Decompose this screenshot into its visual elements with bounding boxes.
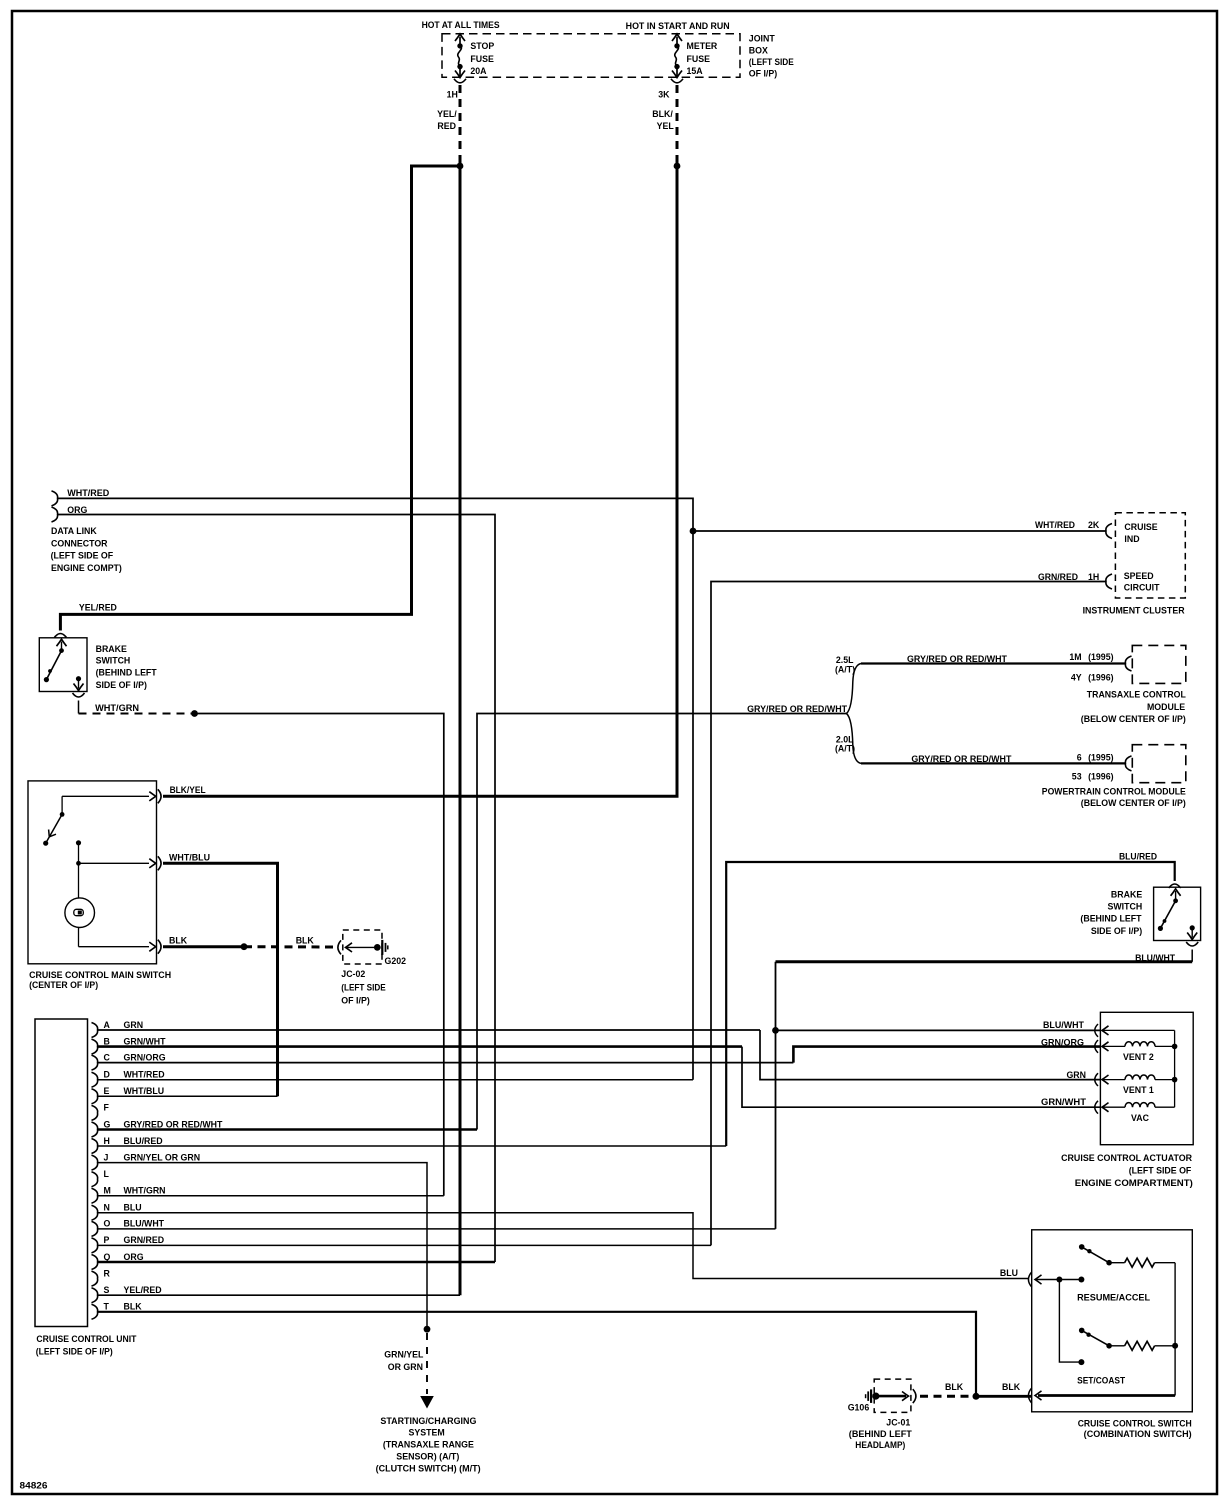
main switch contact dot [76, 840, 81, 845]
svg-text:SIDE OF I/P): SIDE OF I/P) [1091, 926, 1142, 936]
svg-text:(LEFT SIDE OF I/P): (LEFT SIDE OF I/P) [36, 1347, 113, 1357]
svg-text:CRUISE CONTROL SWITCH: CRUISE CONTROL SWITCH [1078, 1419, 1192, 1429]
main switch junction to WHT/BLU [76, 861, 81, 866]
main switch BLK exit arrow [149, 942, 156, 951]
wire WHT/GRN solid to pin M [195, 714, 444, 1196]
svg-text:G202: G202 [385, 956, 407, 966]
brake switch (left) box [39, 638, 87, 692]
svg-text:SIDE OF I/P): SIDE OF I/P) [96, 680, 147, 690]
connector BLU entry [1028, 1272, 1031, 1287]
svg-text:BRAKE: BRAKE [96, 644, 127, 654]
svg-text:(TRANSAXLE RANGE: (TRANSAXLE RANGE [383, 1440, 474, 1450]
svg-text:BLU/WHT: BLU/WHT [1043, 1020, 1085, 1030]
svg-text:(LEFT SIDE OF: (LEFT SIDE OF [51, 551, 114, 561]
wire YEL/RED vertical fuse to cruise unit pin S [459, 166, 462, 1295]
wire pin G GRY/RED OR RED/WHT [98, 1128, 478, 1131]
main switch blade [46, 814, 62, 843]
connector JC-02 socket [338, 940, 341, 954]
wire GRN jog to VENT 1 [760, 1030, 1101, 1080]
main switch WHT/BLU exit arrow [149, 859, 156, 868]
svg-text:WHT/RED: WHT/RED [124, 1070, 165, 1080]
svg-text:GRN/RED: GRN/RED [124, 1235, 165, 1245]
svg-text:GRN/RED: GRN/RED [1038, 572, 1078, 582]
svg-text:HEADLAMP): HEADLAMP) [855, 1440, 905, 1450]
connector cruise unit pin E [92, 1089, 98, 1104]
lamp: cruise main switch illumination [65, 898, 95, 928]
svg-text:(CENTER OF I/P): (CENTER OF I/P) [29, 980, 98, 990]
cruise control switch box [1032, 1230, 1193, 1412]
svg-text:2.5L: 2.5L [836, 655, 854, 665]
svg-text:F: F [104, 1103, 110, 1113]
svg-text:(LEFT SIDE OF: (LEFT SIDE OF [1129, 1165, 1192, 1175]
svg-text:M: M [104, 1186, 111, 1196]
svg-text:WHT/RED: WHT/RED [67, 488, 109, 498]
wire to SET/COAST common [1059, 1280, 1081, 1363]
svg-text:FUSE: FUSE [687, 54, 711, 64]
svg-text:IND: IND [1124, 534, 1139, 544]
wire WHT/GRN dashed from brake switch [79, 713, 195, 715]
main switch blade arrowhead [49, 830, 56, 837]
junction WHT/GRN splice [191, 710, 198, 717]
brake switch lower contact dot [1190, 925, 1195, 930]
connector cruise unit pin P [92, 1238, 98, 1253]
svg-text:BLU/RED: BLU/RED [124, 1136, 163, 1146]
svg-text:A: A [104, 1020, 111, 1030]
svg-text:E: E [104, 1086, 110, 1096]
svg-text:VENT 2: VENT 2 [1123, 1052, 1154, 1062]
svg-text:GRY/RED OR RED/WHT: GRY/RED OR RED/WHT [907, 654, 1008, 664]
connector JC-02 box (dashed) [343, 930, 382, 964]
svg-text:G106: G106 [848, 1402, 870, 1412]
svg-text:YEL/RED: YEL/RED [124, 1285, 162, 1295]
svg-text:L: L [104, 1169, 110, 1179]
wire pin O BLU/WHT [98, 1228, 776, 1230]
svg-text:R: R [104, 1268, 111, 1278]
connector cruise unit pin A [92, 1023, 98, 1038]
svg-text:CIRCUIT: CIRCUIT [1124, 583, 1160, 593]
svg-text:ENGINE COMPARTMENT): ENGINE COMPARTMENT) [1075, 1178, 1193, 1188]
svg-text:(CLUTCH SWITCH) (M/T): (CLUTCH SWITCH) (M/T) [376, 1463, 481, 1473]
svg-text:1H: 1H [447, 90, 458, 100]
wire BLU/RED pin H up and right to brake switch [726, 862, 1174, 1146]
svg-text:ORG: ORG [67, 505, 87, 515]
JC-01 arrow [902, 1392, 909, 1401]
svg-text:T: T [104, 1302, 110, 1312]
svg-text:WHT/GRN: WHT/GRN [124, 1186, 166, 1196]
connector BLK exit [158, 940, 161, 954]
svg-text:C: C [104, 1052, 111, 1062]
connector data link ORG [52, 507, 58, 522]
wire pin N BLU [98, 1213, 1030, 1279]
wire BLK/YEL: fuse down, left to main switch [163, 166, 677, 796]
connector brake switch top [1169, 884, 1181, 888]
brake switch blade [46, 651, 61, 680]
svg-text:J: J [104, 1152, 109, 1162]
svg-text:BLU/WHT: BLU/WHT [1135, 953, 1176, 963]
svg-text:(BEHIND LEFT: (BEHIND LEFT [96, 668, 158, 678]
connector BLK entry [1028, 1388, 1031, 1403]
wire GRY/RED OR RED/WHT from brace down to pin G [477, 714, 847, 1130]
wire WHT/RED to cruise indicator [693, 530, 1106, 532]
svg-text:CRUISE CONTROL MAIN SWITCH: CRUISE CONTROL MAIN SWITCH [29, 970, 171, 980]
wire pin H BLU/RED [98, 1145, 727, 1147]
svg-text:FUSE: FUSE [470, 54, 494, 64]
wire dashed fuse 1H to junction [459, 85, 462, 163]
svg-text:OR GRN: OR GRN [388, 1362, 423, 1372]
svg-text:(1995): (1995) [1088, 753, 1113, 763]
svg-text:GRY/RED OR RED/WHT: GRY/RED OR RED/WHT [124, 1119, 224, 1129]
brake switch pivot dot [59, 648, 64, 653]
connector cruise unit pin G [92, 1122, 98, 1137]
junction BLK splice [241, 943, 248, 950]
wire BLK to cruise control switch [976, 1395, 1032, 1398]
connector cruise unit pin H [92, 1139, 98, 1154]
connector cruise unit pin Q [92, 1255, 98, 1270]
switch RESUME/ACCEL [1079, 1244, 1085, 1250]
joint box (dashed) [442, 34, 740, 78]
wire GRN/ORG jog to VENT 2 [793, 1047, 1101, 1063]
brake switch arrow down [1187, 933, 1197, 940]
brake switch (right) box [1154, 887, 1201, 940]
svg-text:BOX: BOX [749, 46, 768, 56]
svg-text:O: O [104, 1219, 111, 1229]
wire GRN/WHT pin B [98, 1045, 743, 1048]
svg-text:(BEHIND LEFT: (BEHIND LEFT [849, 1429, 913, 1439]
wire dashed fuse 3K to junction [676, 85, 679, 163]
svg-text:YEL: YEL [657, 121, 675, 131]
svg-text:(COMBINATION SWITCH): (COMBINATION SWITCH) [1084, 1429, 1192, 1439]
fuse STOP FUSE 20A [455, 34, 465, 41]
connector transaxle control module [1125, 656, 1131, 671]
ground G106 bar 3 [865, 1394, 867, 1398]
svg-text:GRY/RED OR RED/WHT: GRY/RED OR RED/WHT [911, 754, 1012, 764]
wire ORG data link right and down to pin Q [58, 515, 496, 1263]
brake switch contact arrow up [57, 639, 67, 646]
svg-text:CRUISE CONTROL ACTUATOR: CRUISE CONTROL ACTUATOR [1061, 1153, 1193, 1163]
svg-text:6: 6 [1077, 753, 1082, 763]
ground G106 bar 1 [870, 1389, 872, 1403]
svg-text:RED: RED [437, 121, 456, 131]
svg-text:H: H [104, 1136, 110, 1146]
resistor RESUME/ACCEL [1125, 1258, 1155, 1267]
connector cruise unit pin T [92, 1304, 98, 1319]
junction BLU/WHT to actuator [772, 1027, 779, 1034]
ground G202 bar 1 [381, 940, 383, 955]
switch internal bus [1174, 1263, 1176, 1396]
svg-text:VENT 1: VENT 1 [1123, 1085, 1154, 1095]
svg-text:OF I/P): OF I/P) [341, 996, 370, 1006]
actuator pin GRN / solenoid VENT 1 [1095, 1073, 1098, 1086]
connector brake switch bottom [1186, 942, 1198, 946]
svg-text:1M: 1M [1069, 652, 1081, 662]
connector speed circuit 1H [1106, 574, 1112, 589]
svg-text:(BELOW CENTER OF I/P): (BELOW CENTER OF I/P) [1081, 714, 1186, 724]
svg-text:G: G [104, 1119, 111, 1129]
wire pin S YEL/RED [98, 1294, 461, 1296]
svg-text:BLK: BLK [296, 935, 315, 945]
svg-text:GRN: GRN [124, 1020, 144, 1030]
wire dashed to starting/charging system [426, 1333, 428, 1394]
svg-text:3K: 3K [658, 90, 670, 100]
connector cruise unit pin L [92, 1172, 98, 1187]
svg-text:CRUISE CONTROL UNIT: CRUISE CONTROL UNIT [36, 1334, 137, 1344]
wire pin T BLK [98, 1312, 977, 1397]
svg-text:INSTRUMENT CLUSTER: INSTRUMENT CLUSTER [1083, 605, 1186, 615]
wire GRN/RED from speed circuit down to pin P [711, 582, 1106, 1246]
svg-text:GRN: GRN [1066, 1070, 1086, 1080]
svg-text:TRANSAXLE CONTROL: TRANSAXLE CONTROL [1087, 689, 1187, 699]
connector WHT/BLU exit [158, 856, 161, 870]
junction actuator bus [1172, 1044, 1178, 1050]
powertrain control module box (dashed) [1132, 745, 1186, 783]
instrument cluster box (dashed) [1115, 513, 1185, 598]
connector cruise unit pin O [92, 1221, 98, 1236]
svg-text:POWERTRAIN CONTROL MODULE: POWERTRAIN CONTROL MODULE [1042, 786, 1186, 796]
connector cruise unit pin R [92, 1271, 98, 1286]
connector cruise unit pin B [92, 1039, 98, 1054]
wire BLK dashed to JC-02 [244, 945, 334, 948]
connector JC-01 socket [913, 1389, 916, 1403]
svg-text:STOP: STOP [470, 41, 494, 51]
svg-text:VAC: VAC [1131, 1113, 1150, 1123]
svg-text:P: P [104, 1235, 110, 1245]
wire BLK dashed to JC-01 [920, 1395, 973, 1398]
svg-text:(BEHIND LEFT: (BEHIND LEFT [1080, 914, 1142, 924]
connector powertrain control module [1125, 756, 1131, 771]
wire GRN/ORG pin C [98, 1062, 794, 1064]
svg-text:BLK/YEL: BLK/YEL [170, 785, 207, 795]
wire pin P GRN/RED [98, 1244, 712, 1246]
svg-text:BRAKE: BRAKE [1111, 890, 1142, 900]
svg-text:ORG: ORG [124, 1252, 144, 1262]
wire WHT/RED data link right and down to pin D [58, 498, 694, 1079]
svg-text:S: S [104, 1285, 110, 1295]
actuator pin GRN/ORG / solenoid VENT 2 [1095, 1040, 1098, 1053]
brake switch arrow down [74, 684, 84, 691]
svg-text:2K: 2K [1088, 520, 1100, 530]
svg-text:53: 53 [1072, 771, 1082, 781]
junction switch bus [1172, 1343, 1178, 1349]
svg-text:SYSTEM: SYSTEM [409, 1428, 445, 1438]
wire GRN/WHT jog to VAC [742, 1047, 1101, 1108]
svg-text:BLK: BLK [945, 1382, 964, 1392]
svg-text:15A: 15A [687, 66, 704, 76]
connector brake switch bottom [73, 693, 85, 697]
svg-text:(A/T): (A/T) [835, 665, 855, 675]
wire BLU/WHT to cruise control actuator [776, 1029, 1102, 1031]
svg-text:OF I/P): OF I/P) [749, 69, 777, 79]
connector JC-01 box (dashed) [874, 1379, 911, 1412]
main switch internal wiring [62, 795, 149, 797]
brake switch pivot dot [1173, 898, 1178, 903]
cruise control actuator box [1100, 1012, 1193, 1144]
connector cruise ind 2K [1106, 524, 1112, 539]
svg-text:YEL/RED: YEL/RED [79, 603, 117, 613]
svg-text:B: B [104, 1036, 110, 1046]
svg-text:YEL/: YEL/ [437, 109, 457, 119]
svg-text:1H: 1H [1088, 572, 1099, 582]
wire BLK from main switch [163, 945, 244, 948]
wire GRN pin A [98, 1029, 761, 1031]
wire GRY/RED OR RED/WHT to powertrain control module [861, 762, 1125, 764]
svg-text:JC-01: JC-01 [886, 1418, 910, 1428]
brake switch blade [1160, 901, 1175, 929]
junction BLK [973, 1393, 980, 1400]
fuse METER FUSE 15A [672, 34, 682, 41]
ground G202 bar 2 [385, 943, 387, 952]
junction GRN/YEL OR GRN [424, 1326, 431, 1333]
connector brake switch top [54, 634, 66, 638]
JC-02 dot [374, 944, 381, 951]
junction YEL/RED at fuse drop [457, 163, 464, 170]
svg-text:(1995): (1995) [1088, 652, 1113, 662]
contact RESUME/ACCEL common [1078, 1277, 1084, 1283]
svg-text:ENGINE COMPT): ENGINE COMPT) [51, 563, 122, 573]
svg-text:WHT/BLU: WHT/BLU [124, 1086, 165, 1096]
svg-text:N: N [104, 1203, 110, 1213]
svg-text:BLU: BLU [1000, 1268, 1018, 1278]
svg-text:SET/COAST: SET/COAST [1077, 1376, 1126, 1386]
svg-text:Q: Q [104, 1252, 111, 1262]
wire YEL/RED: junction left, down, to brake switch [60, 166, 460, 631]
svg-text:(1996): (1996) [1088, 771, 1113, 781]
ground G202 bar 3 [387, 945, 389, 949]
ground G106 bar 2 [867, 1391, 869, 1401]
wire WHT/BLU to pin E [163, 863, 278, 1096]
svg-text:(LEFT SIDE: (LEFT SIDE [749, 57, 794, 67]
svg-text:BLK: BLK [1002, 1382, 1021, 1392]
JC-02 arrow [346, 943, 353, 952]
connector cruise unit pin M [92, 1188, 98, 1203]
resistor SET/COAST [1125, 1341, 1155, 1350]
svg-text:STARTING/CHARGING: STARTING/CHARGING [380, 1416, 476, 1426]
wire BLK internal [1038, 1394, 1175, 1397]
svg-text:GRY/RED OR RED/WHT: GRY/RED OR RED/WHT [747, 704, 848, 714]
svg-text:BLU/RED: BLU/RED [1119, 852, 1157, 862]
svg-text:RESUME/ACCEL: RESUME/ACCEL [1077, 1292, 1151, 1302]
svg-text:JC-02: JC-02 [341, 969, 365, 979]
svg-text:4Y: 4Y [1071, 672, 1082, 682]
svg-text:DATA LINK: DATA LINK [51, 526, 97, 536]
svg-text:GRN/ORG: GRN/ORG [124, 1052, 166, 1062]
svg-text:HOT IN START AND RUN: HOT IN START AND RUN [626, 21, 730, 31]
svg-text:GRN/YEL OR GRN: GRN/YEL OR GRN [124, 1152, 201, 1162]
actuator pin GRN/WHT / solenoid VAC [1095, 1101, 1098, 1114]
svg-text:84826: 84826 [20, 1481, 48, 1491]
actuator pin BLU/WHT [1095, 1024, 1098, 1037]
wire BLU/WHT vertical to pin O [775, 962, 777, 1229]
svg-text:(1996): (1996) [1088, 672, 1113, 682]
svg-text:BLU/WHT: BLU/WHT [124, 1219, 165, 1229]
switch SET/COAST [1079, 1328, 1085, 1334]
connector cruise unit pin C [92, 1055, 98, 1070]
svg-text:BLK: BLK [124, 1302, 143, 1312]
connector cruise unit pin F [92, 1105, 98, 1120]
svg-text:HOT AT ALL TIMES: HOT AT ALL TIMES [422, 20, 500, 30]
cruise control main switch box [28, 781, 157, 964]
svg-text:(A/T): (A/T) [835, 743, 855, 753]
brace A/T split [847, 664, 862, 764]
svg-text:METER: METER [687, 41, 718, 51]
svg-text:GRN/WHT: GRN/WHT [1041, 1097, 1087, 1107]
svg-text:(LEFT SIDE: (LEFT SIDE [341, 983, 386, 993]
wire pin Q ORG [98, 1261, 496, 1264]
junction BLK/YEL at fuse drop [674, 163, 681, 170]
cruise control unit box [35, 1019, 88, 1327]
wire pin J GRN/YEL OR GRN [98, 1163, 428, 1330]
connector cruise unit pin N [92, 1205, 98, 1220]
actuator internal bus [1174, 1030, 1176, 1107]
svg-text:(BELOW CENTER OF I/P): (BELOW CENTER OF I/P) [1081, 798, 1186, 808]
svg-text:BLU: BLU [124, 1203, 142, 1213]
connector cruise unit pin D [92, 1072, 98, 1087]
connector BLK/YEL exit [158, 789, 161, 803]
JC-01 dot [872, 1393, 879, 1400]
svg-text:GRN/WHT: GRN/WHT [124, 1036, 167, 1046]
svg-text:SENSOR) (A/T): SENSOR) (A/T) [396, 1451, 459, 1461]
svg-text:SWITCH: SWITCH [96, 656, 131, 666]
svg-text:MODULE: MODULE [1147, 702, 1185, 712]
svg-text:D: D [104, 1070, 110, 1080]
svg-text:BLK: BLK [169, 935, 188, 945]
svg-text:WHT/BLU: WHT/BLU [169, 853, 210, 863]
main switch internal vertical [78, 843, 80, 947]
wire GRY/RED OR RED/WHT to transaxle control module [861, 662, 1125, 664]
main switch pivot dot [60, 812, 65, 817]
svg-text:CONNECTOR: CONNECTOR [51, 538, 108, 548]
svg-text:SWITCH: SWITCH [1107, 902, 1142, 912]
main switch BLK/YEL exit arrow [149, 792, 156, 801]
svg-text:JOINT: JOINT [749, 33, 776, 43]
svg-text:SPEED: SPEED [1124, 571, 1154, 581]
wire pin E WHT/BLU [98, 1095, 278, 1097]
svg-text:20A: 20A [470, 66, 487, 76]
contact SET/COAST common [1078, 1359, 1084, 1365]
junction WHT/RED to instrument cluster [690, 528, 697, 535]
junction actuator bus [1172, 1077, 1178, 1083]
connector cruise unit pin J [92, 1155, 98, 1170]
transaxle control module box (dashed) [1132, 645, 1186, 683]
wire pin D WHT/RED [98, 1079, 694, 1081]
svg-text:BLK/: BLK/ [652, 109, 673, 119]
junction switch common [1056, 1277, 1062, 1283]
wire BLU/WHT brake switch horizontal [776, 960, 1193, 963]
connector data link WHT/RED [52, 491, 58, 506]
svg-text:WHT/RED: WHT/RED [1035, 520, 1075, 530]
svg-text:CRUISE: CRUISE [1124, 522, 1157, 532]
svg-text:WHT/GRN: WHT/GRN [95, 703, 139, 713]
arrow to starting/charging system [420, 1396, 434, 1409]
connector cruise unit pin S [92, 1288, 98, 1303]
svg-text:GRN/YEL: GRN/YEL [384, 1349, 424, 1359]
brake switch lower contact dot [76, 676, 81, 681]
wire pin M WHT/GRN [98, 1195, 444, 1197]
brake switch contact arrow up [1171, 889, 1181, 896]
